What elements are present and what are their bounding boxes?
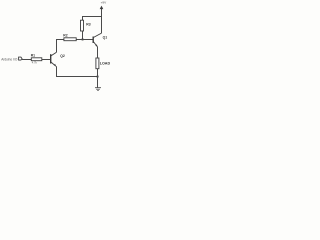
transistor Q2 [51,52,65,66]
wire port to R1 [22,59,31,61]
wire R3 bottom lead [82,31,84,40]
input port symbol [19,57,22,60]
wire Q1 collector riser [101,17,103,34]
svg-text:Arduino I/O: Arduino I/O [1,57,18,61]
wire R1 to Q2 base [42,59,51,61]
resistor R3 [81,20,91,31]
wire R2 left lead [56,39,64,41]
node junction R3/base wire [82,39,84,41]
power symbol (arrow to +9V) [100,6,104,10]
wire R3 top lead [82,16,84,20]
wire Q1 base [76,39,93,41]
wire top rail [82,16,102,18]
wire power to top rail [101,9,103,17]
svg-text:Q2: Q2 [60,54,65,58]
load (resistor LOAD) [96,58,111,69]
wire Q2 collector riser [56,39,58,52]
wire Q2 emitter drop [56,66,58,77]
svg-text:R2: R2 [63,34,67,38]
transistor Q1 [93,33,107,47]
svg-text:4.7k: 4.7k [32,61,38,65]
wire LOAD bottom lead [97,69,99,77]
svg-text:LOAD: LOAD [100,62,111,66]
svg-text:R1: R1 [31,54,35,58]
wire ground stub [97,77,99,88]
wire bottom rail [56,76,98,78]
resistor R1 value 4.7k [31,54,42,65]
ground [95,88,101,91]
svg-text:R3: R3 [86,23,90,27]
node junction rail/ground [97,76,99,78]
resistor R2 [63,34,76,41]
svg-text:Q1: Q1 [103,35,108,39]
wire Q1 emitter to LOAD [97,47,99,58]
svg-text:+9V: +9V [101,1,108,5]
